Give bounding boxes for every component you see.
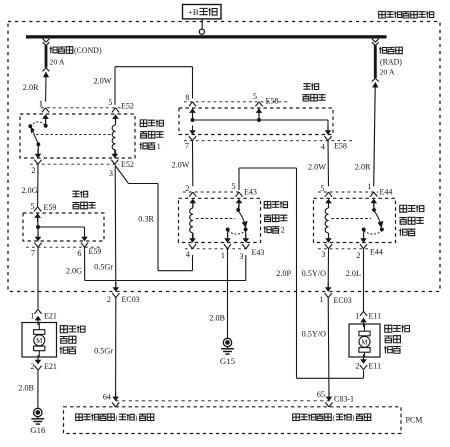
ground G16	[34, 408, 42, 416]
radiator fan motor box	[349, 324, 380, 357]
svg-text:2: 2	[356, 251, 360, 260]
relay1 label 冷凝器风扇继电器1	[140, 120, 147, 127]
wire 2.0G E59-6 to relay2 pin3	[84, 247, 86, 281]
relay3 bottom connectors pin3 pin2	[325, 238, 332, 243]
label: fuse box name top-right	[379, 11, 386, 18]
svg-text:EC03: EC03	[334, 296, 352, 305]
relay3 internal dashed link	[332, 218, 372, 220]
relay1 switch	[45, 119, 47, 126]
svg-text:2.0B: 2.0B	[209, 314, 225, 323]
svg-text:5: 5	[30, 202, 34, 211]
svg-text:E58: E58	[334, 142, 347, 151]
svg-text:1: 1	[157, 142, 161, 151]
svg-text:E21: E21	[44, 311, 57, 320]
wire from +B box to bus	[201, 19, 203, 29]
wire 0.5Gr EC03-2 to PCM pin64	[115, 298, 117, 398]
wire 2.0G E59-7 to condenser motor	[37, 247, 39, 309]
svg-text:5: 5	[253, 92, 257, 101]
E52 bottom connector row line	[30, 163, 119, 165]
svg-text:E11: E11	[369, 362, 382, 371]
label 易熔丝(COND) 20 A	[50, 47, 58, 54]
PCM pin 64	[112, 397, 119, 402]
wire 0.5Gr relay1 pin3 down to EC03 pin2	[114, 167, 117, 288]
E11 pin1 connector	[360, 311, 364, 316]
svg-text:2.0G: 2.0G	[66, 267, 82, 276]
E44 top row line	[318, 191, 378, 193]
svg-text:6: 6	[77, 249, 81, 258]
E58 bottom connector row line	[184, 140, 352, 142]
svg-text:G15: G15	[220, 356, 236, 366]
svg-text:2: 2	[355, 362, 359, 371]
svg-text:M: M	[36, 337, 43, 345]
svg-text:5: 5	[108, 98, 112, 107]
wire 0.5Y/O relay3 pin3 to EC03 pin1	[327, 249, 329, 288]
svg-text:5: 5	[231, 182, 235, 191]
svg-text:E59: E59	[44, 203, 57, 212]
E59 bottom connector row line	[26, 246, 100, 248]
E52 top connector row line	[41, 107, 122, 109]
wire 2.0W E58-4 to relay3 pin5	[327, 141, 330, 187]
E58 jumper connector box	[179, 108, 333, 135]
E58 bottom connectors pin7 pin4	[189, 130, 196, 135]
label 短接 连接器 top	[303, 84, 310, 90]
E59 bottom connectors pin7 pin6	[35, 237, 42, 242]
svg-text:2.0B: 2.0B	[18, 384, 34, 393]
E59 top connector pin5	[34, 207, 38, 212]
svg-text:(: (	[116, 413, 119, 422]
svg-text:3: 3	[321, 250, 325, 259]
C83-1 connector row	[116, 400, 334, 402]
svg-text:5: 5	[320, 184, 324, 193]
svg-text:E58: E58	[266, 96, 279, 105]
condenser fan relay 1 box	[20, 114, 135, 158]
fusible link RAD 20A	[372, 39, 379, 42]
svg-text:1: 1	[39, 100, 43, 109]
wire 2.0W E58-7 to relay2 pin2	[192, 141, 194, 187]
relay2 switch	[237, 203, 240, 209]
svg-text:2.0L: 2.0L	[346, 269, 361, 278]
svg-text:1: 1	[221, 251, 225, 260]
svg-text:2: 2	[31, 166, 35, 175]
motor label 冷凝器风扇电机	[60, 326, 67, 333]
svg-text:E44: E44	[370, 248, 383, 257]
PCM label 风扇继电器(低速)控制	[293, 414, 300, 421]
svg-text:2.0W: 2.0W	[94, 77, 112, 86]
svg-text:EC03: EC03	[122, 295, 140, 304]
E58 top connector row line	[184, 101, 290, 103]
svg-text:E52: E52	[121, 160, 134, 169]
wire 0.5Y/O EC03-1 to PCM pin65	[327, 298, 330, 398]
PCM pin 65	[326, 397, 333, 402]
connector circle on bus	[199, 29, 204, 34]
svg-text:E43: E43	[244, 187, 257, 196]
label 易熔丝 (RAD) 20 A	[379, 47, 387, 54]
svg-text:0.5Gr: 0.5Gr	[94, 263, 113, 272]
svg-text:0.3R: 0.3R	[138, 215, 154, 224]
svg-text:2: 2	[107, 295, 111, 304]
svg-text:0.5Gr: 0.5Gr	[94, 347, 113, 356]
svg-text:2.0W: 2.0W	[308, 163, 326, 172]
motor label 散热器风扇电机	[385, 325, 392, 332]
svg-text:1: 1	[30, 311, 34, 320]
svg-text:E43: E43	[252, 248, 265, 257]
E43 top row line	[183, 191, 242, 193]
svg-text:E44: E44	[380, 187, 393, 196]
relay3 label 散热器风扇继电器	[400, 205, 407, 212]
relay2 bottom connectors pin4 pin1 pin3	[189, 238, 196, 243]
svg-text:1: 1	[367, 182, 371, 191]
relay2 top connectors pin2 pin5	[189, 192, 193, 197]
E59 internal jumper	[36, 225, 40, 229]
svg-text:2: 2	[30, 362, 34, 371]
+B power supply box	[183, 5, 222, 19]
svg-text:0.5Y/O: 0.5Y/O	[302, 330, 326, 339]
fusible link COND 20A	[43, 39, 50, 42]
svg-text:E52: E52	[121, 102, 134, 111]
radiator fan relay box	[314, 198, 396, 242]
svg-text:PCM: PCM	[406, 416, 423, 425]
E52 bottom connectors pin2 pin3	[35, 154, 42, 159]
svg-text:E21: E21	[44, 362, 57, 371]
svg-text:E11: E11	[369, 312, 382, 321]
E43 bottom row line	[185, 248, 250, 250]
svg-text:65: 65	[317, 390, 325, 399]
E59 jumper connector box	[23, 213, 104, 241]
svg-text:): )	[352, 413, 355, 422]
svg-text:64: 64	[103, 393, 111, 402]
svg-text:(COND): (COND)	[74, 46, 102, 55]
relay1 internal dashed link	[36, 133, 113, 135]
wire 2.0B relay2 pin1 to ground G15	[227, 249, 229, 339]
E21 pin2 connector	[35, 360, 42, 365]
E58 internal jumper	[191, 118, 195, 122]
relay2 label 冷凝器风扇继电器2	[264, 201, 271, 208]
svg-text:2.0R: 2.0R	[23, 83, 39, 92]
wire 2.0G relay1 pin2 to E59 pin5	[37, 165, 39, 207]
relay2 internal dashed link	[196, 218, 235, 220]
wire 2.0L relay3 pin2 to E11 pin1	[363, 249, 365, 311]
relay1 coil	[115, 119, 117, 126]
wire 2.0R to E44 pin1	[374, 87, 376, 186]
relay3 top connectors pin5 pin1	[325, 192, 329, 197]
PCM label 风扇继电器(高速)控制	[76, 414, 83, 421]
svg-text:20 A: 20 A	[380, 68, 395, 77]
E58 top connectors pin8 pin5	[189, 102, 193, 107]
svg-text:2.0W: 2.0W	[172, 161, 190, 170]
svg-text:2.0P: 2.0P	[276, 269, 291, 278]
E11 pin2 connector	[360, 359, 367, 364]
svg-text:): )	[135, 413, 138, 422]
svg-text:3: 3	[239, 252, 243, 261]
svg-text:M: M	[361, 339, 368, 347]
condenser fan motor box	[22, 323, 57, 358]
wire 2.0B to ground G16	[37, 370, 39, 409]
svg-text:20 A: 20 A	[50, 57, 65, 66]
label 短接 连接器 left	[72, 191, 79, 197]
wire 0.3R relay1 pin3 to relay2 pin4	[115, 165, 116, 167]
svg-text:+B: +B	[188, 7, 199, 17]
svg-text:G16: G16	[30, 425, 46, 435]
svg-text:1: 1	[355, 312, 359, 321]
relay3 switch	[373, 203, 375, 209]
relay2 coil	[192, 203, 194, 209]
wire 2.0P relay2 pin5 feed from radiator motor return	[239, 167, 297, 169]
svg-text:4: 4	[186, 250, 190, 259]
svg-text:3: 3	[109, 169, 113, 178]
svg-text:E59: E59	[89, 247, 102, 256]
svg-text:0.5Y/O: 0.5Y/O	[302, 269, 326, 278]
svg-text:2.0R: 2.0R	[355, 163, 371, 172]
engine compartment fuse box border 发动机舱熔丝盒	[8, 22, 440, 292]
wire 2.0W loop feeding relay1 coil and E58 pin8	[115, 66, 193, 68]
EC03 connector pin1	[325, 287, 332, 292]
svg-text:7: 7	[31, 249, 35, 258]
svg-text:2: 2	[281, 226, 285, 235]
svg-text:C83-1: C83-1	[334, 395, 354, 404]
E21 pin1 connector	[34, 309, 38, 314]
svg-text:2: 2	[185, 184, 189, 193]
svg-text:4: 4	[321, 143, 325, 152]
bus bar	[26, 35, 387, 38]
svg-text:(: (	[333, 413, 336, 422]
condenser fan relay 2 box	[179, 198, 261, 242]
ground G15	[223, 338, 231, 346]
svg-text:(RAD): (RAD)	[380, 57, 402, 66]
E52 top connectors pin1 pin5	[42, 108, 46, 113]
PCM box	[64, 407, 402, 434]
svg-text:7: 7	[185, 141, 189, 150]
E44 bottom row line	[318, 248, 368, 250]
relay3 coil	[328, 203, 330, 209]
svg-text:2.0G: 2.0G	[21, 186, 37, 195]
EC03 connector pin2	[113, 287, 120, 292]
svg-text:8: 8	[185, 93, 189, 102]
svg-text:1: 1	[319, 295, 323, 304]
